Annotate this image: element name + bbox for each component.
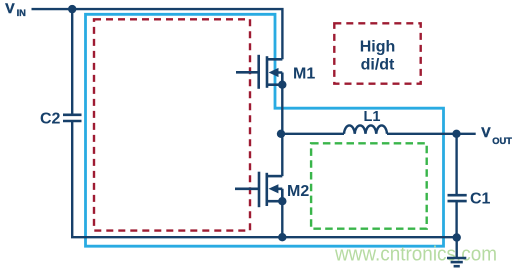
svg-text:di/dt: di/dt: [361, 57, 395, 74]
svg-text:C1: C1: [470, 190, 491, 207]
svg-text:M1: M1: [293, 66, 315, 83]
loop 1 dashed box (dark red): [94, 19, 250, 230]
svg-text:www.cntronics.com: www.cntronics.com: [334, 244, 497, 266]
wire: switch node to L1: [281, 133, 344, 135]
node M1 source dot: [278, 81, 286, 89]
High di/dt dashed box (dark red): [334, 23, 420, 83]
transistor M2: [235, 172, 282, 208]
wire: Vin top rail: [32, 9, 283, 59]
svg-text:High: High: [360, 39, 396, 56]
hot-loop trace (cyan): [86, 14, 444, 246]
wire: Vout down to C1: [455, 134, 457, 195]
ground: [447, 238, 466, 267]
wire: Vin down to C2: [71, 9, 73, 115]
loop 2 dashed box (green): [311, 143, 427, 228]
node M2 source dot: [278, 197, 286, 205]
svg-text:C2: C2: [40, 111, 61, 128]
inductor L1: [344, 125, 387, 133]
M1 body arrow: [269, 68, 279, 77]
svg-text:L1: L1: [364, 109, 381, 125]
wire: M2 source to ground rail: [281, 201, 283, 237]
svg-text:M2: M2: [287, 183, 309, 200]
wire: M1 source to M2 drain (switch node): [281, 85, 283, 176]
svg-text:OUT: OUT: [492, 136, 512, 146]
transistor M1: [236, 55, 282, 89]
node Vin junction dot: [68, 5, 76, 13]
wire: C2 bottom to ground rail: [72, 121, 457, 237]
node ground rail dot (under M2): [278, 233, 286, 241]
wire: C1 bottom to ground rail: [455, 201, 457, 238]
wire: L1 to Vout: [387, 133, 476, 135]
capacitor C2: [63, 115, 82, 121]
svg-text:V: V: [481, 124, 491, 140]
M2 body arrow: [269, 184, 279, 193]
node ground junction dot: [453, 233, 461, 241]
capacitor C1: [448, 195, 467, 201]
svg-text:IN: IN: [17, 8, 27, 18]
node Vout junction dot: [452, 130, 460, 138]
svg-text:V: V: [5, 0, 15, 16]
node switch node dot: [277, 130, 285, 138]
